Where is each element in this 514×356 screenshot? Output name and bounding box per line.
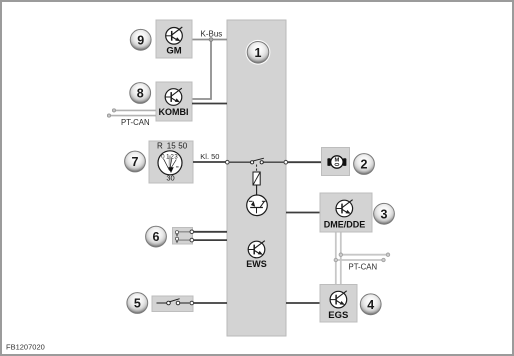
wire PT-CAN branch lower <box>334 258 385 261</box>
control unit icon EWS <box>248 241 265 258</box>
svg-text:50: 50 <box>178 141 187 150</box>
switch symbol <box>157 299 190 305</box>
terminal EWS right on Kl.50 <box>284 160 288 164</box>
control unit box GM <box>156 20 192 58</box>
wire connector lower to EWS <box>194 239 227 241</box>
wire PT-CAN branch upper <box>339 253 390 256</box>
wire connector upper to EWS <box>194 231 227 233</box>
svg-text:15: 15 <box>167 141 176 150</box>
terminal EWS left on Kl.50 <box>226 160 230 164</box>
wire EWS to EGS <box>286 302 320 304</box>
wire EWS to starter <box>288 161 322 163</box>
ignition switch dial <box>158 151 182 175</box>
svg-text:3: 3 <box>381 207 388 221</box>
connector pins <box>175 231 190 244</box>
wire Kl.50 ignition to EWS <box>193 161 227 163</box>
wire PT-CAN pair DME/DDE to EGS <box>336 233 341 285</box>
label EGS <box>328 310 348 321</box>
switch terminal <box>190 301 194 305</box>
wire K-Bus GM to EWS <box>192 39 227 41</box>
callout ball 5 <box>127 293 148 314</box>
callout ball 3 <box>374 203 395 224</box>
wire item5 to EWS <box>194 302 228 304</box>
ignition switch terminal label 30 <box>166 173 174 182</box>
callout ball 6 <box>146 226 167 247</box>
starter relay icon <box>247 195 268 216</box>
svg-text:GM: GM <box>166 45 181 56</box>
label GM <box>166 45 181 56</box>
svg-text:8: 8 <box>137 87 144 101</box>
svg-text:M: M <box>334 158 339 164</box>
label PT-CAN right <box>349 262 378 271</box>
svg-text:1: 1 <box>255 46 262 60</box>
callout ball 4 <box>360 294 381 315</box>
control unit box EWS column (item 1) <box>227 20 286 336</box>
control unit box EGS <box>320 285 357 323</box>
callout ball 2 <box>354 154 375 175</box>
ignition switch box (item 7) <box>149 141 193 183</box>
svg-text:30: 30 <box>166 173 174 182</box>
dashed control line <box>256 165 258 173</box>
label FB1207020 <box>6 343 45 352</box>
control unit icon GM <box>166 27 183 44</box>
control unit icon DME/DDE <box>336 200 353 217</box>
svg-text:5: 5 <box>134 297 141 311</box>
connector terminals <box>190 230 194 242</box>
label K-Bus <box>201 30 223 39</box>
svg-text:DME/DDE: DME/DDE <box>324 219 366 229</box>
callout ball 8 <box>130 83 151 104</box>
starter motor icon <box>327 156 346 168</box>
svg-text:EGS: EGS <box>328 310 348 321</box>
switch box (item 5) <box>152 296 193 312</box>
svg-text:9: 9 <box>137 33 144 47</box>
junction K-Bus node <box>209 38 213 42</box>
callout ball 7 <box>125 151 146 172</box>
svg-text:PT-CAN: PT-CAN <box>121 118 150 127</box>
callout ball 1 <box>246 40 271 65</box>
control unit box KOMBI <box>156 82 192 121</box>
ignition switch position labels R 15 50 <box>157 141 188 150</box>
label Kl.50 <box>200 152 219 161</box>
svg-text:KOMBI: KOMBI <box>159 107 189 117</box>
label PT-CAN left <box>121 118 150 127</box>
starter box (item 2) <box>322 148 350 176</box>
control unit box DME/DDE <box>320 193 372 232</box>
wire K-Bus drop to KOMBI <box>192 40 211 100</box>
wire KOMBI to EWS <box>192 103 227 105</box>
svg-text:Kl. 50: Kl. 50 <box>200 152 219 161</box>
wire PT-CAN stub lower (KOMBI) <box>107 114 156 117</box>
label EWS <box>246 259 267 269</box>
relay coil <box>253 172 260 185</box>
label DME/DDE <box>324 219 366 229</box>
connector box (item 6) <box>173 228 193 245</box>
wire coil to starter relay <box>256 185 258 195</box>
svg-text:6: 6 <box>153 230 160 244</box>
starter switch contact in EWS <box>251 158 264 164</box>
callout ball 9 <box>130 29 151 50</box>
label KOMBI <box>159 107 189 117</box>
control unit icon EGS <box>330 291 347 308</box>
wire EWS to DME/DDE <box>286 212 320 214</box>
svg-text:7: 7 <box>132 155 139 169</box>
svg-text:4: 4 <box>367 298 374 312</box>
control unit icon KOMBI <box>165 88 182 105</box>
svg-text:2: 2 <box>361 158 368 172</box>
svg-text:PT-CAN: PT-CAN <box>349 262 378 271</box>
svg-text:FB1207020: FB1207020 <box>6 343 45 352</box>
svg-text:EWS: EWS <box>246 259 267 269</box>
wire PT-CAN stub upper (KOMBI) <box>112 109 156 112</box>
svg-text:R: R <box>157 141 163 150</box>
wire Kl.50 inside EWS <box>230 161 284 163</box>
